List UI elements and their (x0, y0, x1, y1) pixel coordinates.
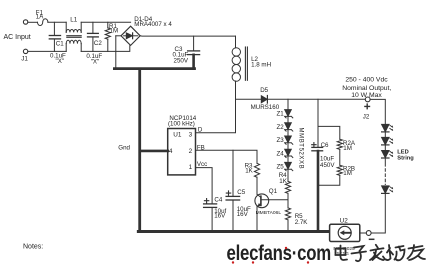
svg-text:3: 3 (189, 132, 193, 139)
svg-text:1M: 1M (110, 27, 119, 34)
watermark chinese characters fa (370, 245, 385, 260)
fuse F1 (38, 19, 48, 26)
svg-text:Z2: Z2 (277, 124, 285, 131)
wire switch node rail: L2 to D5 anode (236, 98, 262, 100)
svg-text:D: D (198, 126, 203, 133)
svg-text:1: 1 (189, 164, 193, 171)
svg-text:250 - 400 Vdc: 250 - 400 Vdc (345, 77, 388, 84)
capacitor C3 (188, 36, 200, 68)
svg-text:C6: C6 (321, 142, 329, 149)
wire DC minus vertical to ground bus (115, 36, 117, 68)
current regulator U2 circle and arrow (338, 226, 351, 239)
connector J2 minus sign (370, 238, 374, 240)
capacitor C6 label (321, 142, 329, 149)
inductor L1 common-mode choke (66, 22, 81, 51)
watermark chinese characters zi (352, 246, 367, 261)
svg-text:(100 kHz): (100 kHz) (168, 120, 195, 127)
capacitor C4 plus sign (204, 199, 208, 203)
capacitor C2 label (94, 40, 102, 47)
transistor Q1 label (269, 188, 278, 195)
wire AC line bottom: L1 to bridge (81, 46, 130, 52)
capacitor C2 value 0.1uF X (86, 53, 102, 65)
U1 pin name Vcc (197, 161, 207, 168)
svg-text:L1: L1 (70, 17, 77, 24)
op-amp U1 NCP1014 box (168, 129, 196, 175)
svg-text:1M: 1M (343, 145, 352, 152)
svg-text:450V: 450V (320, 162, 335, 169)
svg-text:U1: U1 (173, 132, 182, 139)
svg-text:C2: C2 (94, 40, 102, 47)
wire Vcc node: U1 pin 1 to C4 (196, 168, 212, 204)
capacitor C1 label (56, 40, 64, 47)
wire LED string dashed continuation (384, 164, 386, 185)
zener diode Z4 (285, 149, 293, 162)
U1 pin number 2 (189, 148, 193, 155)
resistor R1 (105, 22, 110, 51)
connector J2 plus sign (365, 104, 370, 109)
svg-text:LED: LED (397, 149, 408, 155)
zener diode Z4 label (277, 150, 285, 157)
svg-text:Gnd: Gnd (118, 144, 130, 151)
transistor Q1 value MMBTA06L (256, 210, 282, 216)
capacitor C3 labels C3 0.1uF 250V (173, 46, 189, 64)
wire ground bus bottom (thick) (138, 230, 329, 233)
wire U1 Gnd pin 4 to ground bus (thick) (140, 150, 168, 153)
capacitor C4 (204, 204, 217, 230)
resistor R4 labels R4 1K (279, 172, 288, 185)
svg-text:AC Input: AC Input (4, 34, 31, 41)
svg-text:"X": "X" (56, 58, 65, 65)
capacitor C1 value 0.1uF X (50, 53, 66, 65)
capacitor C1 (49, 22, 60, 51)
svg-text:16V: 16V (214, 213, 226, 220)
connector J2 terminal plus (365, 97, 370, 102)
wire bridge left vertex to DC minus drop (116, 35, 121, 37)
svg-text:25T1G: 25T1G (334, 251, 349, 257)
connector J1 terminal top (23, 20, 27, 24)
output text 250 - 400 Vdc Nominal Output, 10 W Max (342, 77, 391, 99)
svg-text:16V: 16V (237, 211, 249, 218)
LED D6 (string top) (382, 124, 394, 137)
node AC Input label (4, 34, 31, 41)
current regulator U2 value NSI45025 (333, 246, 355, 257)
capacitor C5 label (237, 189, 245, 196)
svg-text:C5: C5 (237, 189, 245, 196)
watermark chinese characters you (408, 245, 426, 260)
zener chain value MMBT52XXB (rotated) (298, 128, 304, 170)
svg-text:Z3: Z3 (277, 137, 285, 144)
capacitor C5 value 10uF 16V (237, 206, 251, 218)
svg-text:String: String (397, 155, 414, 161)
diode D5 labels D5 MURS160 (251, 87, 280, 111)
svg-text:1K: 1K (279, 178, 287, 185)
wire AC line top: fuse to L1 (48, 21, 66, 23)
svg-text:1.8 mH: 1.8 mH (251, 62, 271, 69)
U1 pin name D (198, 126, 203, 133)
transistor Q1 base wire to R4/R5 junction (262, 199, 288, 201)
zener diode Z5 label (277, 164, 285, 171)
capacitor C4 value 10uf 16V (214, 208, 226, 220)
wire U2 to minus terminal (360, 232, 366, 234)
svg-text:elecfans·com: elecfans·com (227, 242, 331, 265)
watermark elecfans.com logo (227, 242, 331, 265)
zener diode Z3 label (277, 137, 285, 144)
svg-text:2: 2 (189, 148, 193, 155)
svg-text:U2: U2 (340, 217, 349, 224)
svg-text:MURS160: MURS160 (251, 104, 280, 111)
zener diode Z5 (285, 162, 293, 181)
connector J1 terminal bottom (23, 49, 27, 53)
wire FB node: U1 pin 2 to R3 (196, 150, 257, 163)
svg-text:Notes:: Notes: (23, 244, 43, 251)
svg-text:C4: C4 (214, 197, 222, 204)
connector J1 label (21, 56, 28, 63)
capacitor C4 label (214, 197, 222, 204)
svg-text:250V: 250V (174, 57, 189, 64)
capacitor C5 plus sign (226, 191, 230, 195)
zener diode Z3 (285, 136, 293, 149)
resistor R1 labels R1 1M (109, 23, 118, 35)
svg-text:"X": "X" (91, 58, 100, 65)
LED D9 (string bottom) (382, 186, 394, 194)
LED D8 (382, 151, 394, 163)
wire DC plus rail: bridge to L2 (140, 35, 235, 37)
resistor R2B (318, 165, 342, 185)
LED string label (397, 149, 414, 161)
inductor L2 labels L2 1.8 mH (251, 56, 271, 69)
wire AC line top: terminal to fuse (28, 21, 38, 23)
svg-text:Vcc: Vcc (197, 161, 207, 168)
zener diode Z2 label (277, 124, 285, 131)
LED D7 (382, 137, 394, 150)
zener diode Z1 label (277, 111, 285, 118)
capacitor C5 (226, 196, 240, 230)
watermark chinese characters dian (336, 246, 348, 261)
capacitor C2 (88, 22, 99, 51)
zener diode Z2 (285, 123, 293, 136)
connector J2 terminal minus (366, 231, 371, 236)
resistor R4 (285, 181, 290, 208)
svg-text:MMBT52XXB: MMBT52XXB (298, 128, 304, 170)
U1 pin number 4 (169, 148, 173, 155)
wire branch to R2A from C6 line (318, 126, 340, 139)
resistor R2B labels R2B 1M (343, 166, 355, 178)
svg-text:D5: D5 (260, 87, 268, 94)
resistor R3 labels R3 1K (245, 162, 254, 174)
wire AC line bottom: terminal to L1 (28, 50, 66, 52)
inductor L2 (232, 36, 247, 99)
svg-text:Z1: Z1 (277, 111, 285, 118)
svg-text:C1: C1 (56, 40, 64, 47)
diode D5 (261, 96, 267, 104)
inductor L1 label (70, 17, 77, 24)
wire C6 tap from output rail (317, 99, 319, 147)
svg-text:MMBTA06L: MMBTA06L (256, 210, 282, 216)
capacitor C6 value 10uF 450V (320, 155, 335, 168)
U1 pin number 3 (189, 132, 193, 139)
U1 designator (173, 132, 182, 139)
resistor R5 (285, 208, 290, 230)
svg-text:Q1: Q1 (269, 188, 278, 195)
watermark chinese characters shao (386, 245, 405, 260)
svg-text:Z4: Z4 (277, 150, 285, 157)
svg-text:1A: 1A (36, 14, 44, 21)
wire ground bus upper (thick) (114, 67, 194, 70)
resistor R5 labels R5 2.7K (295, 213, 309, 226)
svg-text:1K: 1K (245, 168, 253, 175)
svg-text:4: 4 (169, 148, 173, 155)
fuse F1 labels F1 1A (36, 9, 44, 20)
wire drain node: switch node down to U1 pin 3 (196, 99, 236, 132)
current regulator U2 label (340, 217, 349, 224)
resistor R3 (254, 163, 259, 194)
zener diode Z1 (285, 110, 293, 123)
current regulator U2 box (330, 224, 360, 241)
svg-text:2.7K: 2.7K (295, 219, 309, 226)
bridge rectifier D1-D4 (121, 26, 140, 45)
svg-text:J1: J1 (21, 56, 28, 63)
U1 label NCP1014 (100 kHz) (168, 115, 197, 127)
wire C5 tap from FB line (232, 150, 234, 196)
svg-text:Z5: Z5 (277, 164, 285, 171)
wire ground bus left drop (thick) (138, 69, 141, 231)
wire output rail: D5 cathode to J2 (268, 98, 366, 100)
connector J2 label (363, 113, 370, 120)
U1 pin name FB (197, 145, 205, 152)
wire J2 to LED string top (370, 99, 385, 124)
svg-text:MRA4007 x 4: MRA4007 x 4 (134, 21, 172, 28)
capacitor C6 (312, 147, 323, 231)
wire LED string bottom to minus terminal (371, 194, 385, 233)
U1 pin number 1 (189, 164, 193, 171)
resistor R2A (337, 139, 342, 165)
wire zener chain tap from output rail (287, 99, 289, 109)
bridge rectifier labels D1-D4 MRA4007 x 4 (134, 16, 172, 28)
svg-text:1M: 1M (343, 170, 352, 177)
resistor R2A labels R2A 1M (343, 140, 356, 152)
Notes label (23, 244, 43, 251)
wire AC line top: L1 to bridge (81, 21, 130, 23)
transistor Q1 MMBTA06L (255, 194, 269, 230)
svg-text:J2: J2 (363, 113, 370, 120)
U1 pin name Gnd (118, 144, 130, 151)
capacitor C6 plus sign (312, 143, 316, 147)
